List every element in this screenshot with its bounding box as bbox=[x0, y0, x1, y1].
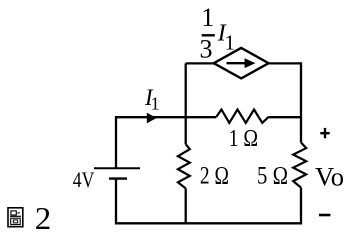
plus sign bbox=[320, 128, 329, 138]
resistor R 2ohm zigzag bbox=[178, 144, 190, 188]
wire: left vertical top + middle horizontal left segment bbox=[116, 117, 216, 168]
wire: below 2ohm to bottom bbox=[185, 188, 187, 223]
wire: left bottom + bottom rail + right vertical lower bbox=[116, 179, 301, 224]
svg-text:1: 1 bbox=[201, 3, 214, 32]
svg-text:3: 3 bbox=[200, 35, 213, 64]
dependent current source diamond bbox=[214, 48, 269, 79]
svg-text:Vo: Vo bbox=[315, 163, 344, 192]
svg-text:1: 1 bbox=[225, 30, 236, 54]
svg-text:2 Ω: 2 Ω bbox=[200, 163, 229, 190]
current source arrowhead bbox=[245, 58, 256, 68]
battery V1 long plate bbox=[94, 167, 140, 169]
battery V1 short plate bbox=[109, 177, 127, 179]
resistor R 1ohm zigzag bbox=[216, 110, 268, 123]
wire: node column from top loop through middle wire to 2ohm top bbox=[185, 63, 187, 144]
minus sign bbox=[319, 214, 330, 217]
wire: middle horizontal right segment bbox=[269, 116, 301, 118]
svg-text:4V: 4V bbox=[73, 167, 95, 192]
svg-text:1: 1 bbox=[151, 94, 160, 114]
svg-text:1 Ω: 1 Ω bbox=[229, 125, 259, 152]
CJK character tu (figure) drawn as strokes bbox=[8, 208, 23, 227]
wire: top loop left segment bbox=[186, 62, 214, 64]
wire: top loop right segment + right vertical to 5ohm bbox=[269, 63, 301, 142]
svg-text:5 Ω: 5 Ω bbox=[257, 163, 288, 190]
fraction bar bbox=[202, 34, 215, 36]
svg-text:2: 2 bbox=[35, 200, 52, 236]
current source arrow shaft bbox=[227, 62, 247, 64]
wire arrow I1 head bbox=[147, 113, 157, 124]
resistor R 5ohm zigzag bbox=[293, 143, 306, 188]
